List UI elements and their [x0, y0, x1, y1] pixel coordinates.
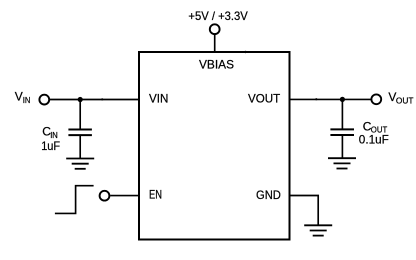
svg-text:GND: GND — [256, 188, 281, 202]
svg-text:IN: IN — [50, 131, 58, 140]
svg-text:V: V — [15, 89, 23, 103]
svg-text:IN: IN — [23, 96, 31, 105]
svg-text:VIN: VIN — [149, 91, 168, 105]
svg-text:OUT: OUT — [396, 97, 414, 106]
svg-text:EN: EN — [149, 187, 162, 201]
svg-text:OUT: OUT — [371, 126, 388, 135]
svg-text:VOUT: VOUT — [248, 91, 281, 105]
svg-text:1uF: 1uF — [41, 139, 60, 153]
svg-text:VBIAS: VBIAS — [199, 58, 234, 72]
svg-text:+5V / +3.3V: +5V / +3.3V — [188, 9, 247, 23]
